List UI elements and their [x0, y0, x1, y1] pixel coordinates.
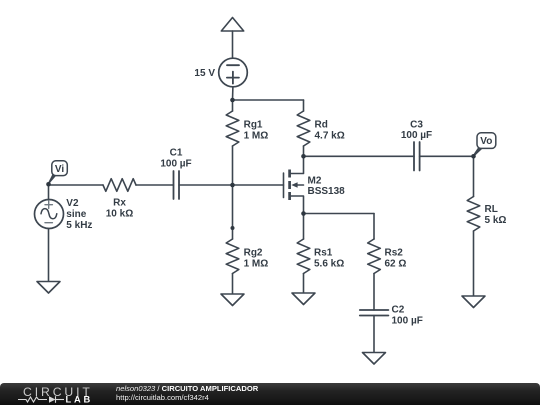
resistor Rs2: [368, 239, 381, 274]
svg-text:sine: sine: [66, 209, 86, 220]
node Vo: [471, 154, 476, 159]
svg-text:C1: C1: [170, 148, 183, 159]
wire Rs1 to ground: [303, 274, 305, 294]
resistor Rg1: [226, 111, 239, 146]
svg-text:Rg2: Rg2: [244, 248, 263, 259]
wire Vi node to Rx: [49, 184, 104, 186]
wire Rs2 to C2: [373, 274, 375, 311]
node Vi flag: [48, 174, 56, 185]
wire source node to Rs1: [303, 214, 305, 240]
wire Rg1 to gate line: [232, 146, 234, 185]
voltage source V1 15V: [219, 58, 248, 87]
svg-text:1 MΩ: 1 MΩ: [244, 131, 269, 142]
svg-text:100 µF: 100 µF: [160, 159, 191, 170]
svg-text:4.7 kΩ: 4.7 kΩ: [315, 131, 345, 142]
wire down to Rs2: [373, 214, 375, 240]
svg-text:5.6 kΩ: 5.6 kΩ: [314, 259, 344, 270]
footer bar: [0, 383, 540, 405]
power flag arrow (top of 15V supply): [221, 18, 243, 32]
svg-text:100 µF: 100 µF: [392, 316, 423, 327]
wire to Rg2: [232, 228, 234, 239]
wire Vo node to RL: [473, 156, 475, 196]
CircuitLab logo: [23, 385, 93, 399]
resistor Rg2: [226, 239, 239, 274]
wire arrow to 15V source: [232, 31, 234, 58]
svg-text:V2: V2: [66, 198, 79, 209]
wire Rx to C1: [136, 184, 174, 186]
svg-text:Rs2: Rs2: [385, 248, 404, 259]
svg-text:Rd: Rd: [315, 120, 328, 131]
svg-text:Rg1: Rg1: [244, 120, 263, 131]
capacitor C1: [173, 171, 175, 199]
svg-text:Rx: Rx: [113, 197, 126, 208]
svg-text:5 kΩ: 5 kΩ: [485, 215, 507, 226]
svg-text:62 Ω: 62 Ω: [385, 259, 407, 270]
wire Rd to drain node: [303, 146, 305, 156]
wire source node to Rs2 branch: [304, 213, 375, 215]
wire drain node to C3: [304, 155, 415, 157]
wire V2 to ground: [48, 229, 50, 282]
svg-text:1 MΩ: 1 MΩ: [244, 259, 269, 270]
svg-text:Vi: Vi: [55, 164, 64, 175]
wire C1 to gate: [179, 184, 284, 186]
wire down to Rd: [303, 100, 305, 111]
node wire joint above Rg2: [231, 226, 235, 230]
wire RL to ground: [473, 231, 475, 296]
svg-text:C2: C2: [392, 305, 405, 316]
wire C2 to ground: [373, 316, 375, 353]
node Vo flag: [473, 147, 482, 157]
ground (Rg2): [221, 294, 244, 306]
ground (V2): [37, 282, 60, 294]
node below 15V: [230, 98, 235, 103]
M2 body lead with arrow: [295, 184, 304, 186]
M2 drain lead: [290, 156, 304, 173]
svg-text:M2: M2: [308, 176, 322, 187]
svg-text:RL: RL: [485, 204, 498, 215]
node gate line: [230, 183, 235, 188]
resistor RL: [467, 197, 480, 232]
wire gate node down: [232, 185, 234, 228]
capacitor C2: [360, 309, 389, 311]
ground (RL): [462, 296, 485, 308]
wire node to Rg1: [232, 100, 234, 111]
svg-text:Vo: Vo: [480, 136, 492, 147]
svg-text:BSS138: BSS138: [308, 186, 346, 197]
svg-text:10 kΩ: 10 kΩ: [106, 208, 133, 219]
node Vi: [46, 182, 51, 187]
svg-text:LAB: LAB: [66, 395, 94, 405]
M2 source lead: [290, 196, 304, 214]
node drain: [301, 154, 306, 159]
resistor Rx: [103, 179, 136, 192]
svg-text:Rs1: Rs1: [314, 248, 333, 259]
svg-text:5 kHz: 5 kHz: [66, 220, 92, 231]
svg-text:100 µF: 100 µF: [401, 130, 432, 141]
svg-text:C3: C3: [410, 119, 423, 130]
wire Rg2 to ground: [232, 274, 234, 295]
wire 15V to node: [232, 87, 234, 100]
transistor M2 gate bar: [283, 173, 285, 198]
M2 channel segments: [288, 170, 291, 178]
resistor Rs1: [297, 239, 310, 274]
ground (Rs1): [292, 293, 315, 305]
logo resistor-diode trace: [18, 396, 64, 403]
ground (C2): [363, 353, 386, 365]
wire C3 to Vo node: [420, 155, 474, 157]
svg-text:15 V: 15 V: [194, 68, 215, 79]
voltage source V2 sine: [48, 185, 50, 200]
resistor Rd: [297, 111, 310, 146]
node source: [301, 211, 306, 216]
wire supply node to Rd branch: [233, 99, 304, 101]
capacitor C3: [413, 142, 415, 171]
